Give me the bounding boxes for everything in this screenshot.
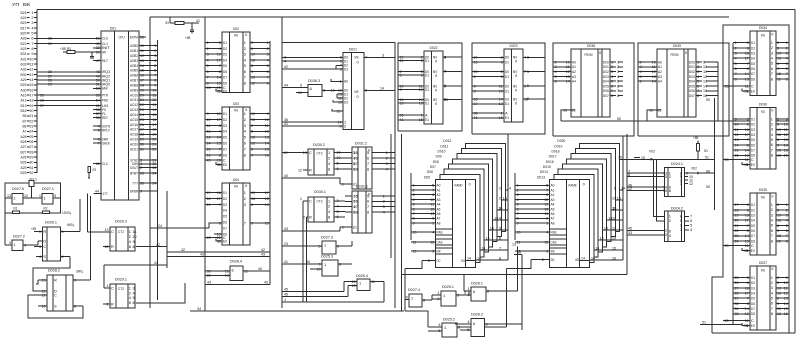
D030.1 output 6 feedback — [60, 255, 70, 257]
svg-text:RG: RG — [234, 33, 238, 38]
svg-text:8: 8 — [697, 93, 699, 98]
svg-text:ВК: ВК — [23, 2, 31, 7]
svg-text:RG: RG — [234, 184, 238, 189]
svg-text:8: 8 — [487, 288, 489, 293]
svg-text:D3: D3 — [223, 202, 227, 207]
svg-text:D031.2: D031.2 — [355, 141, 367, 146]
svg-text:2: 2 — [428, 258, 430, 263]
svg-text:D025.4: D025.4 — [356, 273, 369, 278]
svg-text:1: 1 — [546, 220, 548, 225]
svg-text:50: 50 — [706, 184, 711, 189]
svg-text:PROM: PROM — [671, 52, 679, 57]
svg-text:17: 17 — [217, 117, 221, 122]
svg-text:6: 6 — [444, 54, 446, 59]
right frame bottom corner — [789, 332, 795, 334]
svg-text:7: 7 — [244, 75, 246, 80]
svg-text:RDY: RDY — [102, 115, 108, 120]
PROM D038 CS pin — [561, 110, 575, 121]
register D02 E0 pin — [216, 88, 222, 91]
svg-text:D3: D3 — [223, 52, 227, 57]
PROM D039 CS pin — [647, 110, 661, 121]
svg-text:5: 5 — [337, 161, 339, 166]
frame D021 group right edge — [394, 43, 396, 308]
svg-text:8: 8 — [219, 69, 221, 74]
svg-text:2: 2 — [244, 117, 246, 122]
address bus vertical x157 — [157, 40, 159, 300]
3MHz vertical wire — [90, 196, 92, 280]
svg-text:9: 9 — [251, 152, 253, 157]
svg-text:3МГц: 3МГц — [76, 269, 84, 274]
svg-text:15: 15 — [499, 115, 503, 120]
svg-text:13: 13 — [352, 283, 356, 288]
svg-text:D03: D03 — [233, 101, 239, 106]
svg-text:9: 9 — [614, 185, 616, 190]
svg-text:33: 33 — [152, 165, 156, 170]
net 44 vertical down to D029.2 — [87, 193, 89, 231]
svg-text:D1: D1 — [223, 40, 227, 45]
svg-text:1: 1 — [106, 283, 108, 288]
svg-text:6: 6 — [232, 267, 234, 272]
wire net 34 long horizontal — [190, 310, 404, 312]
svg-text:D039: D039 — [673, 43, 681, 48]
svg-text:D04: D04 — [233, 177, 240, 182]
svg-text:D030.1: D030.1 — [314, 189, 326, 194]
svg-text:18: 18 — [265, 196, 269, 201]
svg-text:9: 9 — [406, 295, 408, 300]
svg-text:9: 9 — [413, 220, 415, 225]
register D03 E0 pin — [216, 162, 222, 165]
svg-text:D6: D6 — [223, 220, 227, 225]
svg-text:8: 8 — [367, 166, 369, 171]
svg-text:46: 46 — [284, 292, 288, 297]
svg-text:08: 08 — [354, 209, 358, 214]
svg-text:06: 06 — [354, 155, 358, 160]
svg-text:6: 6 — [473, 321, 475, 326]
svg-text:6: 6 — [337, 214, 339, 219]
svg-text:8: 8 — [771, 238, 773, 243]
svg-text:2: 2 — [303, 214, 305, 219]
svg-text:D8: D8 — [751, 311, 755, 316]
svg-text:9: 9 — [251, 69, 253, 74]
+5V node with capacitor — [191, 23, 193, 30]
svg-text:CAS: CAS — [437, 239, 443, 244]
svg-text:42: 42 — [181, 247, 185, 252]
svg-text:8: 8 — [367, 209, 369, 214]
svg-text:1: 1 — [443, 293, 445, 298]
svg-text:WR: WR — [102, 49, 106, 54]
svg-text:1: 1 — [499, 185, 501, 190]
svg-text:D1: D1 — [505, 59, 509, 64]
svg-text:8: 8 — [328, 166, 330, 171]
svg-text:36: 36 — [140, 180, 144, 185]
svg-text:5: 5 — [467, 327, 469, 332]
svg-text:66: 66 — [96, 161, 100, 166]
svg-text:2: 2 — [267, 46, 269, 51]
svg-text:8: 8 — [527, 55, 529, 60]
svg-text:47: 47 — [96, 58, 100, 63]
svg-text:ВРВЯ: ВРВЯ — [130, 188, 138, 193]
svg-text:5: 5 — [438, 328, 440, 333]
svg-text:D3: D3 — [344, 67, 348, 72]
svg-text:2: 2 — [542, 257, 544, 262]
CPU address pins AD0-AD21 — [139, 45, 158, 47]
svg-text:5: 5 — [251, 129, 253, 134]
svg-text:A0: A0 — [344, 79, 349, 84]
svg-text:8: 8 — [771, 311, 773, 316]
svg-text:+5В: +5В — [185, 35, 191, 40]
svg-text:6: 6 — [337, 166, 339, 171]
svg-text:CT2: CT2 — [118, 286, 124, 291]
svg-text:D027.6: D027.6 — [12, 186, 24, 191]
svg-text:3: 3 — [339, 123, 341, 128]
svg-text:6: 6 — [486, 321, 488, 326]
svg-text:16: 16 — [265, 152, 269, 157]
svg-text:C: C — [111, 285, 114, 290]
svg-text:2: 2 — [665, 232, 667, 237]
register D04 C E0 pins — [205, 237, 222, 239]
svg-text:1: 1 — [747, 323, 749, 328]
wire net 51 bottom right — [700, 324, 742, 326]
svg-text:OC: OC — [437, 258, 441, 263]
svg-text:R1: R1 — [14, 206, 18, 211]
svg-text:3: 3 — [244, 202, 246, 207]
svg-text:D7: D7 — [223, 75, 227, 80]
RAM stack2 DI OB row — [531, 259, 550, 261]
svg-text:8: 8 — [244, 80, 246, 85]
svg-text:D01: D01 — [110, 26, 116, 31]
svg-text:31: 31 — [140, 146, 144, 151]
svg-text:E1: E1 — [425, 117, 429, 122]
register D03 C pin — [205, 159, 222, 161]
svg-text:A8: A8 — [551, 220, 555, 225]
svg-text:1: 1 — [324, 262, 326, 267]
svg-text:9: 9 — [400, 87, 402, 92]
svg-text:15: 15 — [430, 239, 434, 244]
svg-text:63: 63 — [140, 170, 144, 175]
svg-text:D6: D6 — [223, 141, 227, 146]
svg-text:E0: E0 — [223, 88, 228, 93]
svg-text:D027.4: D027.4 — [408, 287, 421, 292]
svg-text:13: 13 — [512, 242, 516, 247]
svg-text:1: 1 — [14, 242, 16, 247]
D030.1 output 5 wire 6MHz — [60, 230, 80, 232]
svg-text:5: 5 — [219, 162, 221, 167]
svg-text:8: 8 — [423, 297, 425, 302]
svg-text:3: 3 — [382, 52, 384, 57]
data bus vertical x270 register outputs — [269, 41, 271, 285]
svg-text:2: 2 — [140, 165, 142, 170]
svg-text:3: 3 — [267, 52, 269, 57]
svg-text:13: 13 — [217, 141, 221, 146]
svg-text:53: 53 — [725, 83, 729, 88]
RAM D05-D012 stacked chips — [466, 143, 506, 231]
svg-text:37: 37 — [40, 103, 44, 108]
svg-text:5: 5 — [267, 63, 269, 68]
svg-text:6: 6 — [251, 63, 253, 68]
svg-text:13: 13 — [499, 101, 503, 106]
svg-text:5: 5 — [527, 69, 529, 74]
svg-text:9: 9 — [517, 220, 519, 225]
svg-text:4: 4 — [438, 322, 441, 327]
bottom gate wiring — [431, 295, 433, 300]
svg-text:D025.2: D025.2 — [443, 317, 455, 322]
crystal connection — [31, 187, 33, 199]
svg-text:12: 12 — [777, 311, 781, 316]
svg-text:D5: D5 — [223, 214, 227, 219]
svg-text:9: 9 — [267, 111, 269, 116]
D039 output bus vertical — [717, 62, 719, 121]
RAM D013-D020 DO output wires — [620, 189, 623, 191]
svg-text:43: 43 — [207, 280, 211, 285]
svg-text:D3: D3 — [344, 100, 348, 105]
svg-text:R: R — [309, 214, 312, 219]
svg-text:3: 3 — [432, 248, 434, 253]
svg-text:12: 12 — [207, 129, 211, 134]
svg-text:4: 4 — [690, 227, 693, 232]
svg-text:CT2: CT2 — [317, 151, 323, 156]
svg-text:12: 12 — [298, 167, 302, 172]
svg-text:2: 2 — [328, 155, 330, 160]
svg-text:RG: RG — [761, 109, 765, 114]
D021 address pins 1 2 — [282, 121, 343, 123]
svg-text:42: 42 — [284, 64, 288, 69]
svg-text:12: 12 — [777, 153, 781, 158]
D021 outputs — [364, 56, 388, 58]
svg-text:3: 3 — [219, 123, 221, 128]
svg-text:19: 19 — [251, 52, 255, 57]
register D035 C E0 pins — [723, 245, 750, 247]
svg-text:6: 6 — [640, 79, 642, 84]
svg-text:WR: WR — [551, 248, 555, 253]
svg-text:2: 2 — [499, 195, 501, 200]
RAM D013-D020 CAS pin — [515, 241, 550, 243]
svg-text:D024.1: D024.1 — [671, 161, 683, 166]
svg-text:D1: D1 — [223, 111, 227, 116]
svg-text:55: 55 — [140, 34, 144, 39]
wire 44 to D036.3 — [282, 87, 296, 89]
svg-text:RAMD: RAMD — [455, 183, 463, 188]
svg-text:C: C — [43, 244, 46, 249]
svg-text:D1: D1 — [425, 101, 429, 106]
outer frame right edge — [794, 10, 796, 334]
svg-text:15: 15 — [618, 154, 622, 159]
svg-text:D022: D022 — [430, 45, 438, 50]
svg-text:D028.2: D028.2 — [48, 268, 60, 273]
svg-text:40: 40 — [284, 173, 289, 178]
svg-text:CS: CS — [658, 107, 662, 112]
svg-text:D2: D2 — [223, 117, 227, 122]
svg-text:RAS: RAS — [437, 229, 443, 234]
RAM D05-D012 WR pin — [411, 250, 436, 252]
svg-text:7: 7 — [367, 161, 369, 166]
address bus stack1 x411 — [410, 173, 412, 240]
svg-text:12: 12 — [628, 186, 632, 191]
svg-text:D036.3: D036.3 — [308, 78, 320, 83]
svg-text:13: 13 — [745, 76, 749, 81]
svg-text:19: 19 — [265, 202, 269, 207]
svg-text:43: 43 — [207, 157, 211, 162]
register D02 C pin — [205, 87, 222, 89]
register D034 C E0 pins — [723, 85, 750, 87]
right column input bus x733 — [732, 43, 734, 324]
svg-text:RAMB: RAMB — [569, 183, 577, 188]
svg-text:3: 3 — [39, 244, 41, 249]
svg-text:8: 8 — [735, 76, 737, 81]
D031.1 enable E1 — [340, 226, 352, 228]
svg-text:8: 8 — [133, 244, 135, 249]
svg-text:CLC: CLC — [102, 161, 108, 166]
svg-text:OB: OB — [575, 257, 579, 262]
svg-text:8: 8 — [628, 172, 630, 177]
svg-text:3: 3 — [680, 227, 682, 232]
svg-text:1: 1 — [328, 150, 330, 155]
svg-text:6: 6 — [499, 235, 501, 240]
svg-text:13: 13 — [745, 311, 749, 316]
svg-text:6: 6 — [133, 300, 135, 305]
stack2 net 15 elbow from D026.2 — [514, 254, 522, 256]
svg-text:51: 51 — [705, 154, 709, 159]
svg-text:12: 12 — [24, 193, 28, 198]
svg-text:1: 1 — [324, 243, 326, 248]
svg-text:15: 15 — [612, 245, 616, 250]
svg-text:16: 16 — [251, 117, 255, 122]
svg-text:6: 6 — [365, 88, 367, 93]
svg-text:7: 7 — [98, 141, 100, 146]
svg-text:12: 12 — [105, 244, 109, 249]
svg-text:3: 3 — [457, 292, 459, 297]
RAM D05-D012 CAS pin — [411, 241, 436, 243]
svg-text:D07: D07 — [603, 93, 609, 98]
register D037 C E0 pins — [723, 320, 750, 322]
svg-text:CS: CS — [572, 107, 576, 112]
svg-text:12: 12 — [777, 238, 781, 243]
svg-text:8: 8 — [129, 300, 131, 305]
svg-text:3: 3 — [219, 40, 221, 45]
svg-text:CT2: CT2 — [118, 229, 124, 234]
svg-text:D026.2: D026.2 — [471, 312, 483, 317]
svg-text:5: 5 — [219, 238, 221, 243]
svg-text:41: 41 — [474, 115, 478, 120]
svg-text:43: 43 — [207, 85, 211, 90]
svg-text:A4: A4 — [572, 79, 577, 84]
svg-text:D025.1: D025.1 — [442, 284, 454, 289]
svg-text:S: S — [43, 254, 46, 259]
svg-text:3: 3 — [54, 193, 56, 198]
svg-text:3: 3 — [665, 174, 667, 179]
svg-text:D034: D034 — [759, 25, 768, 30]
bus frame top line — [37, 9, 795, 11]
svg-text:9: 9 — [74, 277, 76, 282]
svg-text:D7: D7 — [223, 225, 227, 230]
bottom-left feedback loops — [28, 295, 83, 318]
svg-text:2: 2 — [251, 123, 253, 128]
svg-text:D2: D2 — [223, 46, 227, 51]
net 1 vertical to D030.1 C — [302, 201, 304, 302]
svg-text:УП: УП — [12, 2, 19, 7]
svg-text:ВТВТ: ВТВТ — [130, 170, 139, 175]
inner frame top line — [150, 16, 729, 18]
svg-text:05: 05 — [354, 150, 358, 155]
svg-text:12: 12 — [689, 181, 693, 186]
svg-text:6: 6 — [473, 289, 475, 294]
svg-text:1: 1 — [342, 181, 344, 186]
svg-text:9: 9 — [444, 83, 446, 88]
svg-text:6: 6 — [501, 74, 503, 79]
svg-text:D1: D1 — [425, 58, 429, 63]
D024.1 to D024.2 link wires — [654, 159, 665, 216]
svg-text:53: 53 — [725, 243, 729, 248]
svg-text:DO: DO — [461, 258, 465, 263]
svg-text:5: 5 — [244, 135, 246, 140]
svg-text:53: 53 — [725, 157, 729, 162]
net 43 link row to D029.1 — [104, 264, 167, 266]
address bus stack2 x515 — [514, 173, 516, 240]
svg-text:E0: E0 — [751, 162, 756, 167]
svg-text:7: 7 — [219, 202, 221, 207]
svg-text:D5: D5 — [223, 135, 227, 140]
svg-text:D036: D036 — [759, 101, 767, 106]
svg-text:16: 16 — [474, 59, 478, 64]
svg-text:1: 1 — [14, 196, 16, 201]
svg-text:7: 7 — [219, 146, 221, 151]
svg-text:C: C — [309, 198, 312, 203]
CPU bottom right pins — [139, 172, 158, 174]
svg-text:22: 22 — [152, 146, 156, 151]
svg-text:15: 15 — [251, 75, 255, 80]
svg-text:4: 4 — [467, 319, 470, 324]
svg-text:56: 56 — [96, 115, 100, 120]
register D036 C E0 pins — [723, 159, 750, 161]
svg-text:1: 1 — [328, 198, 330, 203]
svg-text:8: 8 — [328, 214, 330, 219]
svg-text:PROM: PROM — [585, 52, 593, 57]
svg-text:2: 2 — [244, 196, 246, 201]
svg-text:6: 6 — [339, 261, 341, 266]
svg-text:2: 2 — [344, 123, 346, 128]
svg-text:E0: E0 — [223, 238, 228, 243]
svg-text:11: 11 — [413, 239, 417, 244]
svg-text:2: 2 — [251, 40, 253, 45]
svg-text:08: 08 — [354, 166, 358, 171]
svg-text:5: 5 — [499, 225, 501, 230]
svg-text:B25: B25 — [21, 170, 27, 175]
svg-text:3: 3 — [546, 248, 548, 253]
svg-text:16: 16 — [612, 255, 616, 260]
svg-text:16: 16 — [251, 57, 255, 62]
svg-text:13: 13 — [225, 273, 229, 278]
svg-text:2: 2 — [383, 199, 385, 204]
svg-text:D1: D1 — [505, 101, 509, 106]
svg-text:16: 16 — [784, 311, 788, 316]
svg-text:8: 8 — [323, 88, 325, 93]
svg-text:RG: RG — [761, 195, 765, 200]
svg-text:D037: D037 — [759, 260, 767, 265]
svg-text:D027.2: D027.2 — [13, 234, 25, 239]
svg-text:2: 2 — [328, 204, 330, 209]
svg-text:13: 13 — [265, 135, 269, 140]
wires from connector bus to CPU — [37, 37, 93, 39]
wire D030.2 outputs to D031.2 — [344, 168, 346, 171]
oscillator group box — [5, 183, 61, 213]
svg-text:A8: A8 — [437, 220, 441, 225]
svg-text:8: 8 — [786, 238, 788, 243]
svg-text:1: 1 — [432, 220, 434, 225]
svg-text:14: 14 — [380, 85, 385, 90]
svg-text:31: 31 — [165, 20, 169, 25]
svg-text:8: 8 — [611, 93, 613, 98]
svg-text:1: 1 — [467, 286, 469, 291]
svg-text:7: 7 — [244, 146, 246, 151]
